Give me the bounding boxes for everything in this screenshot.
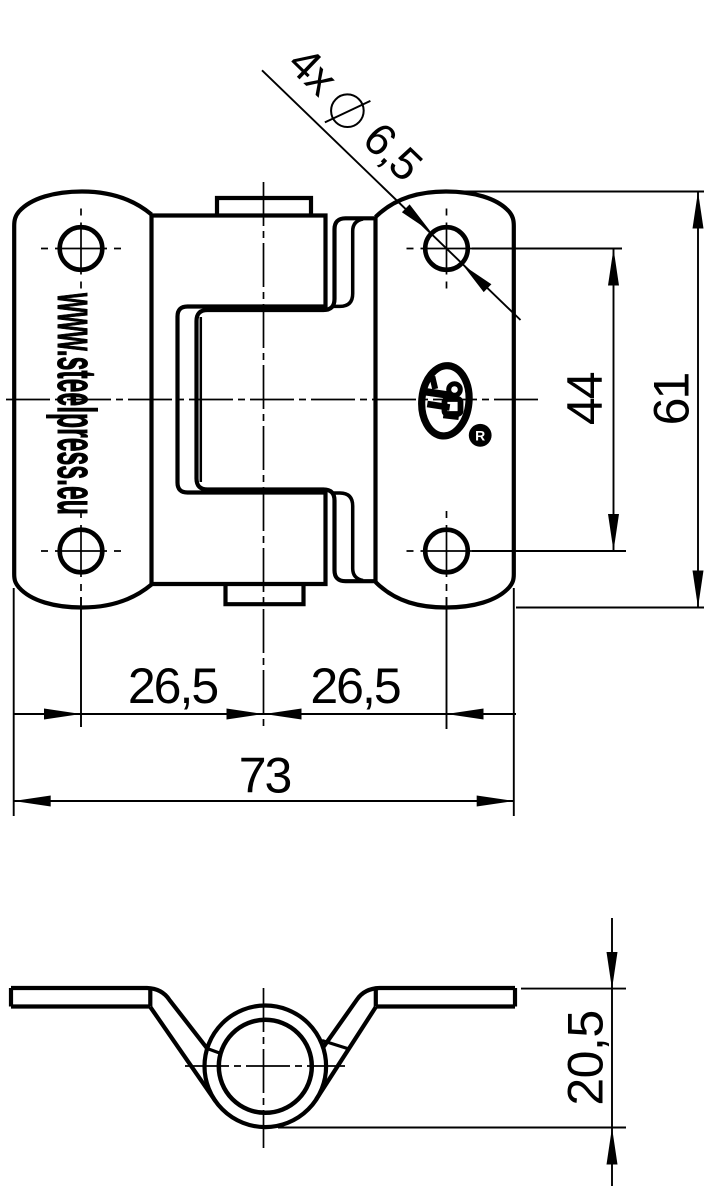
svg-text:20,5: 20,5	[558, 1010, 614, 1105]
svg-text:73: 73	[239, 748, 291, 804]
svg-text:61: 61	[644, 374, 700, 426]
svg-text:26,5: 26,5	[310, 658, 400, 714]
svg-text:www.steelpress.eu: www.steelpress.eu	[45, 292, 107, 514]
svg-text:26,5: 26,5	[128, 658, 218, 714]
svg-text:6,5: 6,5	[354, 112, 432, 190]
svg-text:R: R	[475, 428, 485, 444]
svg-text:44: 44	[557, 372, 613, 425]
